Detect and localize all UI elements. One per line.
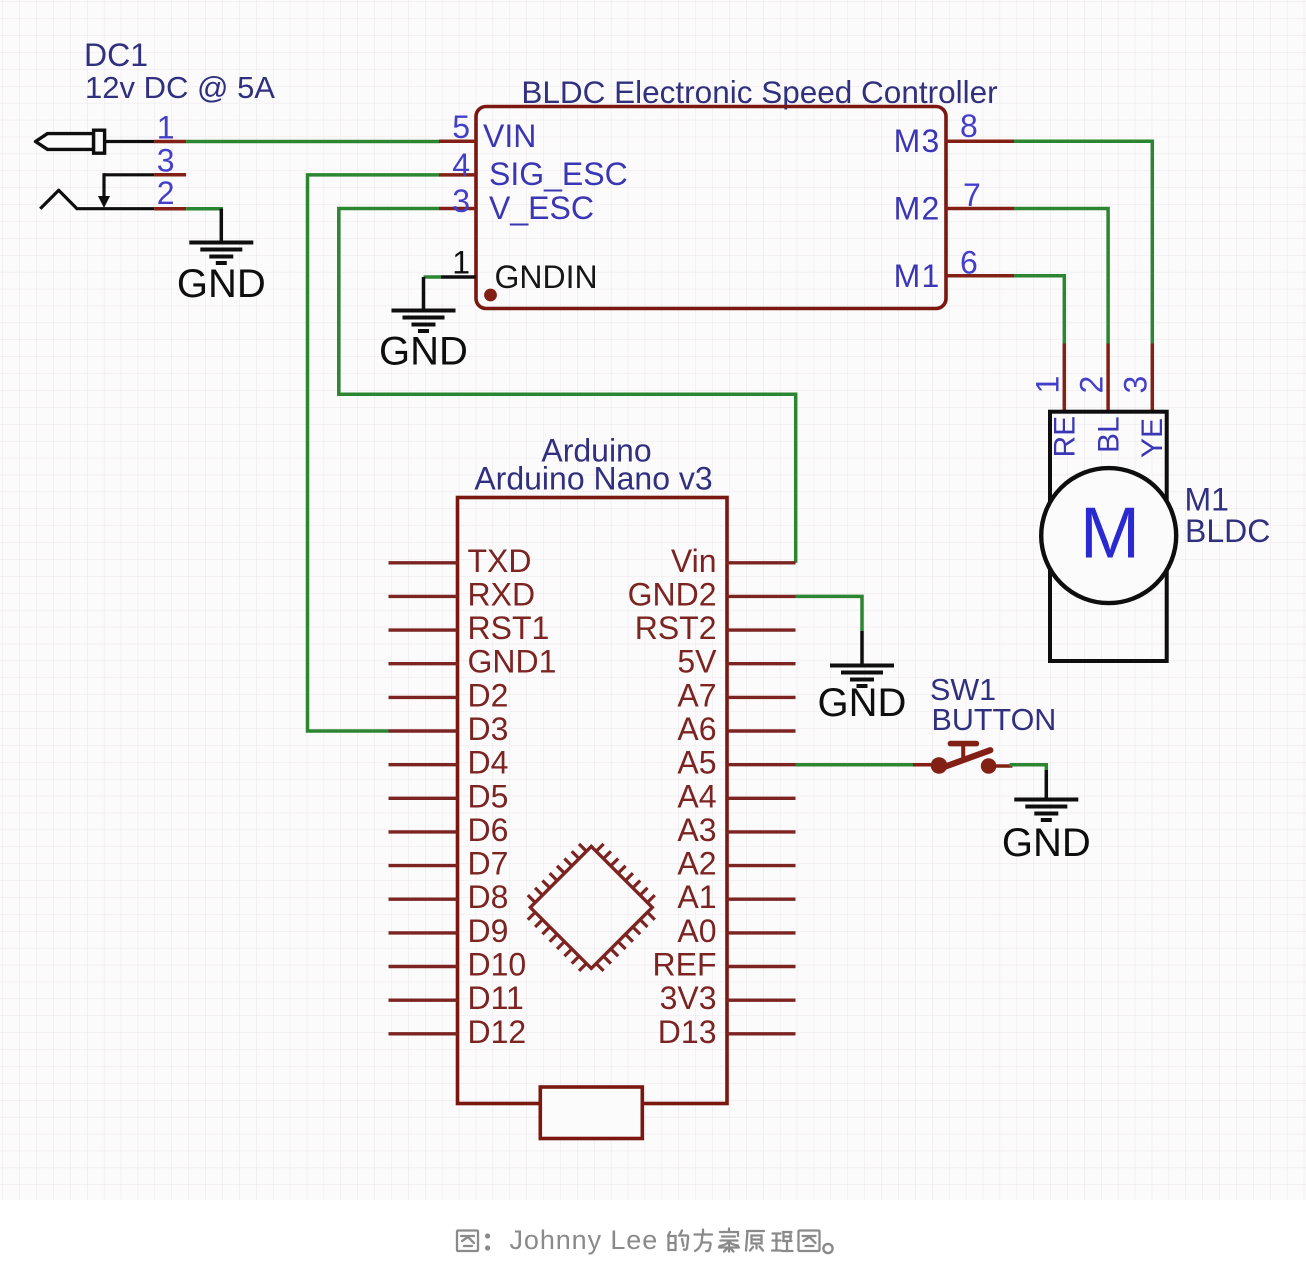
Arduino pin A7: [677, 677, 795, 713]
ESC pin 1 GNDIN: [441, 244, 598, 295]
ground (below GND2): [818, 631, 907, 725]
Arduino pin A3: [677, 812, 795, 848]
svg-text:D11: D11: [468, 980, 524, 1016]
svg-text:GND: GND: [379, 329, 468, 373]
svg-text:V_ESC: V_ESC: [489, 190, 594, 226]
Arduino pin A2: [677, 846, 795, 882]
ground (below SW1): [1002, 770, 1091, 865]
svg-text:RST1: RST1: [468, 610, 550, 646]
svg-text:DC1: DC1: [84, 37, 148, 73]
svg-text:D8: D8: [468, 879, 509, 915]
svg-text:A3: A3: [677, 812, 716, 848]
motor M1 pin 1: [1030, 344, 1066, 412]
wire DC1 pin2 to GND: [186, 207, 223, 211]
label DC1: [84, 37, 148, 73]
svg-text:5: 5: [452, 109, 470, 145]
svg-text:D7: D7: [468, 846, 509, 882]
Arduino pin D2: [389, 677, 509, 713]
svg-text:3: 3: [1118, 376, 1154, 394]
Arduino pin D6: [389, 812, 509, 848]
Arduino pin A4: [677, 778, 795, 814]
svg-text:A1: A1: [677, 879, 716, 915]
Arduino MCU chip icon: [528, 844, 655, 971]
Arduino pin TXD: [389, 543, 532, 579]
label M1: [1185, 482, 1229, 518]
motor pin name RE: [1049, 416, 1082, 458]
svg-text:3: 3: [452, 183, 470, 219]
Arduino pin D4: [389, 745, 509, 781]
svg-text:M1: M1: [894, 258, 941, 294]
ESC pin 7 M2: [894, 177, 1014, 227]
svg-text:2: 2: [157, 175, 175, 211]
Arduino USB connector: [540, 1087, 642, 1139]
svg-text:D2: D2: [468, 677, 509, 713]
wire M2 to motor pin2: [1014, 209, 1108, 344]
DC1 pin 2 (sleeve): [40, 175, 186, 211]
Arduino pin Vin: [671, 543, 796, 579]
svg-text:D5: D5: [468, 778, 509, 814]
ESC pin 5 VIN: [439, 109, 536, 154]
Arduino Nano v3 box: [458, 498, 728, 1104]
wire Arduino A5 to SW1: [796, 763, 918, 767]
svg-text:D4: D4: [468, 745, 509, 781]
motor pin name YE: [1136, 418, 1169, 458]
Arduino pin D9: [389, 913, 509, 949]
svg-text:GND1: GND1: [468, 644, 557, 680]
svg-text:A0: A0: [677, 913, 716, 949]
svg-text:GND2: GND2: [628, 576, 717, 612]
ESC pin 3 V_ESC: [439, 183, 594, 226]
Arduino pin D7: [389, 846, 509, 882]
Arduino pin GND2: [628, 576, 796, 612]
label Arduino: [541, 433, 651, 469]
svg-text:M3: M3: [894, 123, 941, 159]
Arduino pin D13: [658, 1014, 796, 1050]
ESC pin 4 SIG_ESC: [439, 147, 628, 192]
label BUTTON: [932, 703, 1057, 737]
ground (below GNDIN): [379, 277, 468, 373]
label BLDC: [1185, 513, 1270, 549]
switch SW1: [913, 744, 1012, 774]
svg-text:YE: YE: [1136, 418, 1169, 458]
Arduino pin D8: [389, 879, 509, 915]
ESC pin 8 M3: [894, 108, 1014, 159]
svg-text:2: 2: [1073, 376, 1109, 394]
svg-text:D6: D6: [468, 812, 509, 848]
ESC pin 6 M1: [894, 244, 1014, 294]
svg-text:4: 4: [452, 147, 470, 183]
wire M1 to motor pin1: [1014, 276, 1064, 344]
svg-text:M2: M2: [894, 191, 941, 227]
wire SW1 to ground: [1010, 765, 1047, 770]
wire SIG_ESC to Arduino D3: [308, 175, 440, 731]
motor pin name BL: [1092, 416, 1125, 453]
ground (below DC1): [177, 209, 266, 306]
junction dot GNDIN: [484, 289, 497, 302]
label SW1: [930, 673, 996, 707]
svg-text:1: 1: [452, 244, 470, 280]
svg-text:REF: REF: [653, 947, 717, 983]
motor M1 pin 3: [1118, 344, 1154, 412]
svg-text:SIG_ESC: SIG_ESC: [489, 156, 628, 192]
label BLDC Electronic Speed Controller: [521, 74, 997, 110]
wire GND2 to ground: [796, 596, 863, 631]
svg-text:12v DC @ 5A: 12v DC @ 5A: [85, 70, 275, 105]
DC1 pin 3 (switch contact): [98, 143, 186, 208]
wire GNDIN to ground: [424, 275, 442, 279]
Arduino pin D3: [389, 711, 509, 747]
motor M1 pin 2: [1073, 344, 1109, 412]
ESC controller U1 box: [476, 107, 946, 309]
svg-text:7: 7: [963, 177, 981, 213]
Arduino pin D10: [389, 947, 527, 983]
svg-text:GND: GND: [1002, 821, 1091, 865]
Arduino pin REF: [653, 947, 796, 983]
Arduino pin RST1: [389, 610, 550, 646]
svg-text:VIN: VIN: [483, 118, 536, 154]
svg-text:Arduino Nano v3: Arduino Nano v3: [474, 461, 712, 497]
Arduino pin 5V: [677, 644, 795, 680]
Arduino pin A5: [677, 745, 795, 781]
svg-text:6: 6: [960, 244, 978, 280]
svg-text:M: M: [1080, 494, 1140, 574]
svg-text:3: 3: [157, 143, 175, 179]
wire V_ESC to Arduino Vin: [339, 209, 796, 563]
svg-text:8: 8: [960, 108, 978, 144]
motor M1 body: [1041, 412, 1176, 661]
svg-text:D9: D9: [468, 913, 509, 949]
svg-text:SW1: SW1: [930, 673, 996, 707]
wire M3 to motor pin3: [1014, 141, 1152, 343]
svg-text:RE: RE: [1049, 416, 1082, 458]
Arduino pin A0: [677, 913, 795, 949]
Arduino pin RST2: [635, 610, 796, 646]
svg-text:A4: A4: [677, 778, 716, 814]
Arduino pin A6: [677, 711, 795, 747]
svg-text:D10: D10: [468, 947, 527, 983]
svg-text:A7: A7: [677, 677, 716, 713]
Arduino pin GND1: [389, 644, 557, 680]
Arduino pin D5: [389, 778, 509, 814]
svg-text:A5: A5: [677, 745, 716, 781]
svg-text:GNDIN: GNDIN: [495, 259, 598, 295]
label Arduino Nano v3: [474, 461, 712, 497]
svg-text:BLDC: BLDC: [1185, 513, 1270, 549]
svg-text:RST2: RST2: [635, 610, 717, 646]
svg-text:A2: A2: [677, 846, 716, 882]
Arduino pin D11: [389, 980, 524, 1016]
caption: 图： Johnny Lee 的方案原理图。: [457, 1225, 833, 1255]
svg-text:GND: GND: [177, 262, 266, 306]
svg-text:TXD: TXD: [468, 543, 532, 579]
svg-text:D3: D3: [468, 711, 509, 747]
svg-text:5V: 5V: [677, 644, 717, 680]
connector DC1 (barrel jack): [36, 130, 105, 153]
DC1 pin 1 (tip): [105, 110, 187, 146]
svg-text:BL: BL: [1092, 416, 1125, 453]
svg-text:D13: D13: [658, 1014, 717, 1050]
svg-text:Vin: Vin: [671, 543, 717, 579]
Arduino pin A1: [677, 879, 795, 915]
svg-text:GND: GND: [818, 681, 907, 725]
svg-text:3V3: 3V3: [660, 980, 717, 1016]
svg-text:BUTTON: BUTTON: [932, 703, 1057, 737]
wire DC1 pin1 to ESC VIN: [186, 140, 440, 144]
Arduino pin 3V3: [660, 980, 796, 1016]
svg-text:1: 1: [157, 110, 175, 146]
svg-text:D12: D12: [468, 1014, 527, 1050]
svg-text:1: 1: [1030, 376, 1066, 394]
label 12v DC @ 5A: [85, 70, 275, 105]
Arduino pin RXD: [389, 576, 536, 612]
Arduino pin D12: [389, 1014, 527, 1050]
svg-text:RXD: RXD: [468, 576, 536, 612]
svg-text:A6: A6: [677, 711, 716, 747]
svg-text:BLDC Electronic Speed Controll: BLDC Electronic Speed Controller: [521, 74, 997, 110]
svg-text:Johnny Lee: Johnny Lee: [510, 1225, 659, 1255]
